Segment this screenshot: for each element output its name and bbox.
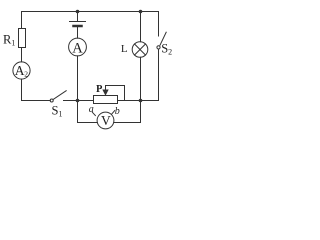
wire R1 bottom to ammeter A2 top (21, 48, 23, 62)
wire voltmeter right lead (114, 122, 141, 124)
node junction dot lamp branch top (139, 10, 143, 14)
wire top horizontal (22, 11, 159, 13)
rheostat wiper arrow (102, 90, 108, 96)
wire wiper horizontal (106, 85, 125, 87)
svg-text:A2: A2 (15, 63, 28, 79)
resistor R1 (19, 29, 26, 48)
svg-text:R1: R1 (3, 33, 15, 48)
switch S2 blade (160, 32, 166, 45)
switch S1 contact circle (50, 99, 53, 102)
voltmeter V (97, 112, 114, 129)
switch S1 blade (53, 91, 66, 100)
lamp L cross diagonal 1 (135, 44, 146, 55)
wire battery branch from top wire (77, 12, 79, 22)
battery long plate (70, 21, 86, 23)
wire battery to ammeter A (77, 28, 79, 39)
wire lamp bottom to junction (140, 57, 142, 100)
wire ammeter A to bottom junction (77, 56, 79, 101)
wire S1 to rheostat left terminal (64, 100, 94, 102)
svg-text:A: A (72, 40, 83, 56)
rheostat wiper stem (105, 86, 107, 90)
lamp L circle (132, 42, 148, 58)
wire right branch lower vertical (158, 49, 160, 101)
ammeter A (69, 38, 87, 56)
svg-text:S1: S1 (52, 104, 63, 119)
rheostat P body (94, 96, 118, 104)
svg-text:P: P (96, 84, 103, 95)
lamp L cross diagonal 2 (135, 44, 146, 55)
svg-text:S2: S2 (161, 42, 172, 57)
svg-text:V: V (101, 113, 111, 128)
node junction dot lamp branch bottom (139, 99, 143, 103)
node junction dot battery branch top (76, 10, 80, 14)
ammeter A2 (13, 62, 30, 79)
svg-text:L: L (121, 43, 128, 55)
switch S2 contact circle (157, 46, 160, 49)
battery short thick plate (74, 25, 82, 28)
node junction dot battery branch bottom (76, 99, 80, 103)
wire rheostat right terminal to S2 corner (118, 100, 159, 102)
wire wiper vertical down to bottom wire (124, 86, 126, 101)
node a terminal tick (92, 112, 95, 115)
svg-text:a: a (89, 104, 94, 115)
wire lamp branch from top wire (140, 12, 142, 42)
wire left branch top corner to R1 top (21, 12, 23, 29)
wire A2 bottom to bottom-left corner (21, 79, 23, 100)
wire voltmeter left lead (78, 122, 98, 124)
wire right branch top vertical (158, 12, 160, 37)
node b terminal tick (112, 111, 115, 115)
wire battery branch junction down to voltmeter row (77, 101, 79, 123)
svg-text:b: b (115, 106, 120, 117)
wire lamp branch down to voltmeter row (140, 101, 142, 123)
wire bottom-left horizontal to switch S1 (22, 100, 51, 102)
